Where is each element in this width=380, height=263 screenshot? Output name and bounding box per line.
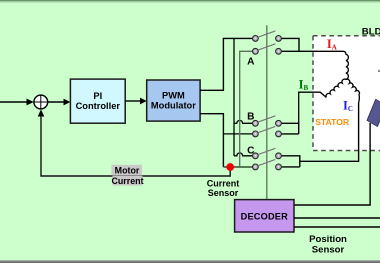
bus rail V2 [233,38,235,155]
wire B1 stub with hop [234,120,252,123]
switch C1 [253,148,282,158]
stator winding B [299,79,347,123]
stator winding C [346,79,359,103]
svg-text:A: A [247,57,255,68]
position sensor wire 2 [294,217,380,219]
svg-text:DECODER: DECODER [241,211,289,221]
current sensor node (red dot) [226,163,234,171]
rotor magnet [367,99,380,126]
decoder block [235,200,294,232]
position sensor wire 1 [294,123,370,205]
wire PWM bottom output down rail [200,114,223,167]
svg-text:Sensor: Sensor [208,188,239,198]
input arrowhead [27,99,34,106]
motor current label [111,165,143,186]
wire bottom rail to switch C2 through current sensor [223,166,252,168]
PWM modulator block [147,80,200,121]
phase A right wires [282,38,299,51]
wire C1 stub with hop [234,153,252,156]
top border [0,0,380,1]
wire PI to PWM [125,100,141,102]
svg-text:PWM: PWM [162,90,185,100]
svg-text:Motor: Motor [115,166,140,176]
svg-text:Position: Position [309,234,347,245]
arrowhead into PWM [140,98,147,105]
switch A1 [253,31,282,41]
svg-text:Sensor: Sensor [312,244,345,255]
svg-text:STATOR: STATOR [315,117,350,127]
svg-text:Modulator: Modulator [151,100,196,110]
switch B2 [253,126,282,136]
switch C2 [253,159,282,169]
BLDC motor dashed box white interior [313,36,380,151]
bottom border [0,260,380,261]
svg-text:C: C [247,145,255,156]
input wire [0,101,28,103]
wire B2 tap [223,133,252,135]
switch A2 [253,44,282,54]
wire summing to PI [48,101,65,103]
arrowhead into summing [38,109,45,116]
svg-text:Current: Current [111,176,143,186]
wire PWM top output to rail [200,38,252,90]
svg-text:PI: PI [93,91,102,101]
phase C right wires [282,103,359,167]
svg-text:BLDC MOTOR: BLDC MOTOR [362,26,380,37]
phase B right wires [282,123,299,134]
svg-text:B: B [247,111,254,122]
stator winding A [299,51,348,79]
summing junction [34,95,48,109]
PI controller block [70,79,125,123]
position sensor wire 3 [294,226,380,228]
motor current feedback wire [41,116,230,177]
decoder control line [266,25,268,199]
bus rail V3 gray [240,51,253,167]
BLDC motor dashed border [313,36,380,151]
rotor edge mark [378,70,380,72]
switch B1 [253,116,282,126]
arrowhead into PI [64,99,71,106]
svg-text:Controller: Controller [76,101,121,111]
